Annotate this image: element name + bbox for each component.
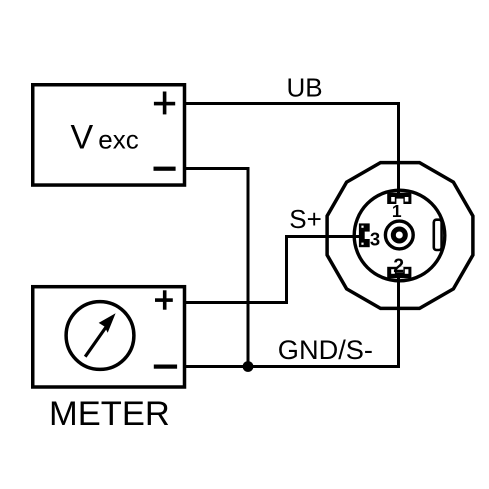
pin 1 contact (top) (387, 193, 411, 204)
svg-text:3: 3 (370, 228, 380, 249)
voltage source V exc box (33, 85, 185, 185)
wire S+: meter + to connector pin 3 (186, 237, 359, 303)
wire UB: V exc + to connector pin 1 (186, 104, 399, 197)
meter needle (85, 324, 108, 357)
plus terminal of meter (155, 290, 173, 309)
wire: V exc - down to junction (186, 169, 248, 367)
plus terminal of V exc (154, 92, 175, 115)
minus terminal of meter (154, 365, 177, 369)
pin 3 contact (left) (359, 223, 371, 247)
center pin bullseye (385, 221, 413, 249)
connector J1 body (12-sided outline) (327, 163, 473, 309)
meter box (33, 287, 185, 387)
svg-text:METER: METER (49, 395, 170, 433)
svg-text:1: 1 (392, 201, 402, 221)
svg-text:UB: UB (287, 73, 323, 103)
svg-text:V: V (71, 119, 94, 157)
svg-text:exc: exc (98, 125, 138, 155)
pin 2 contact (bottom) (387, 267, 411, 278)
svg-text:GND/S-: GND/S- (278, 334, 373, 365)
wire GND/S-: meter - to connector pin 2 (186, 275, 399, 367)
junction dot (243, 361, 254, 372)
keyway slot (right) (434, 220, 442, 250)
svg-text:S+: S+ (289, 204, 322, 234)
minus terminal of V exc (154, 167, 176, 171)
meter dial circle (66, 302, 134, 370)
connector inner face circle (354, 190, 445, 281)
svg-text:2: 2 (393, 255, 404, 277)
